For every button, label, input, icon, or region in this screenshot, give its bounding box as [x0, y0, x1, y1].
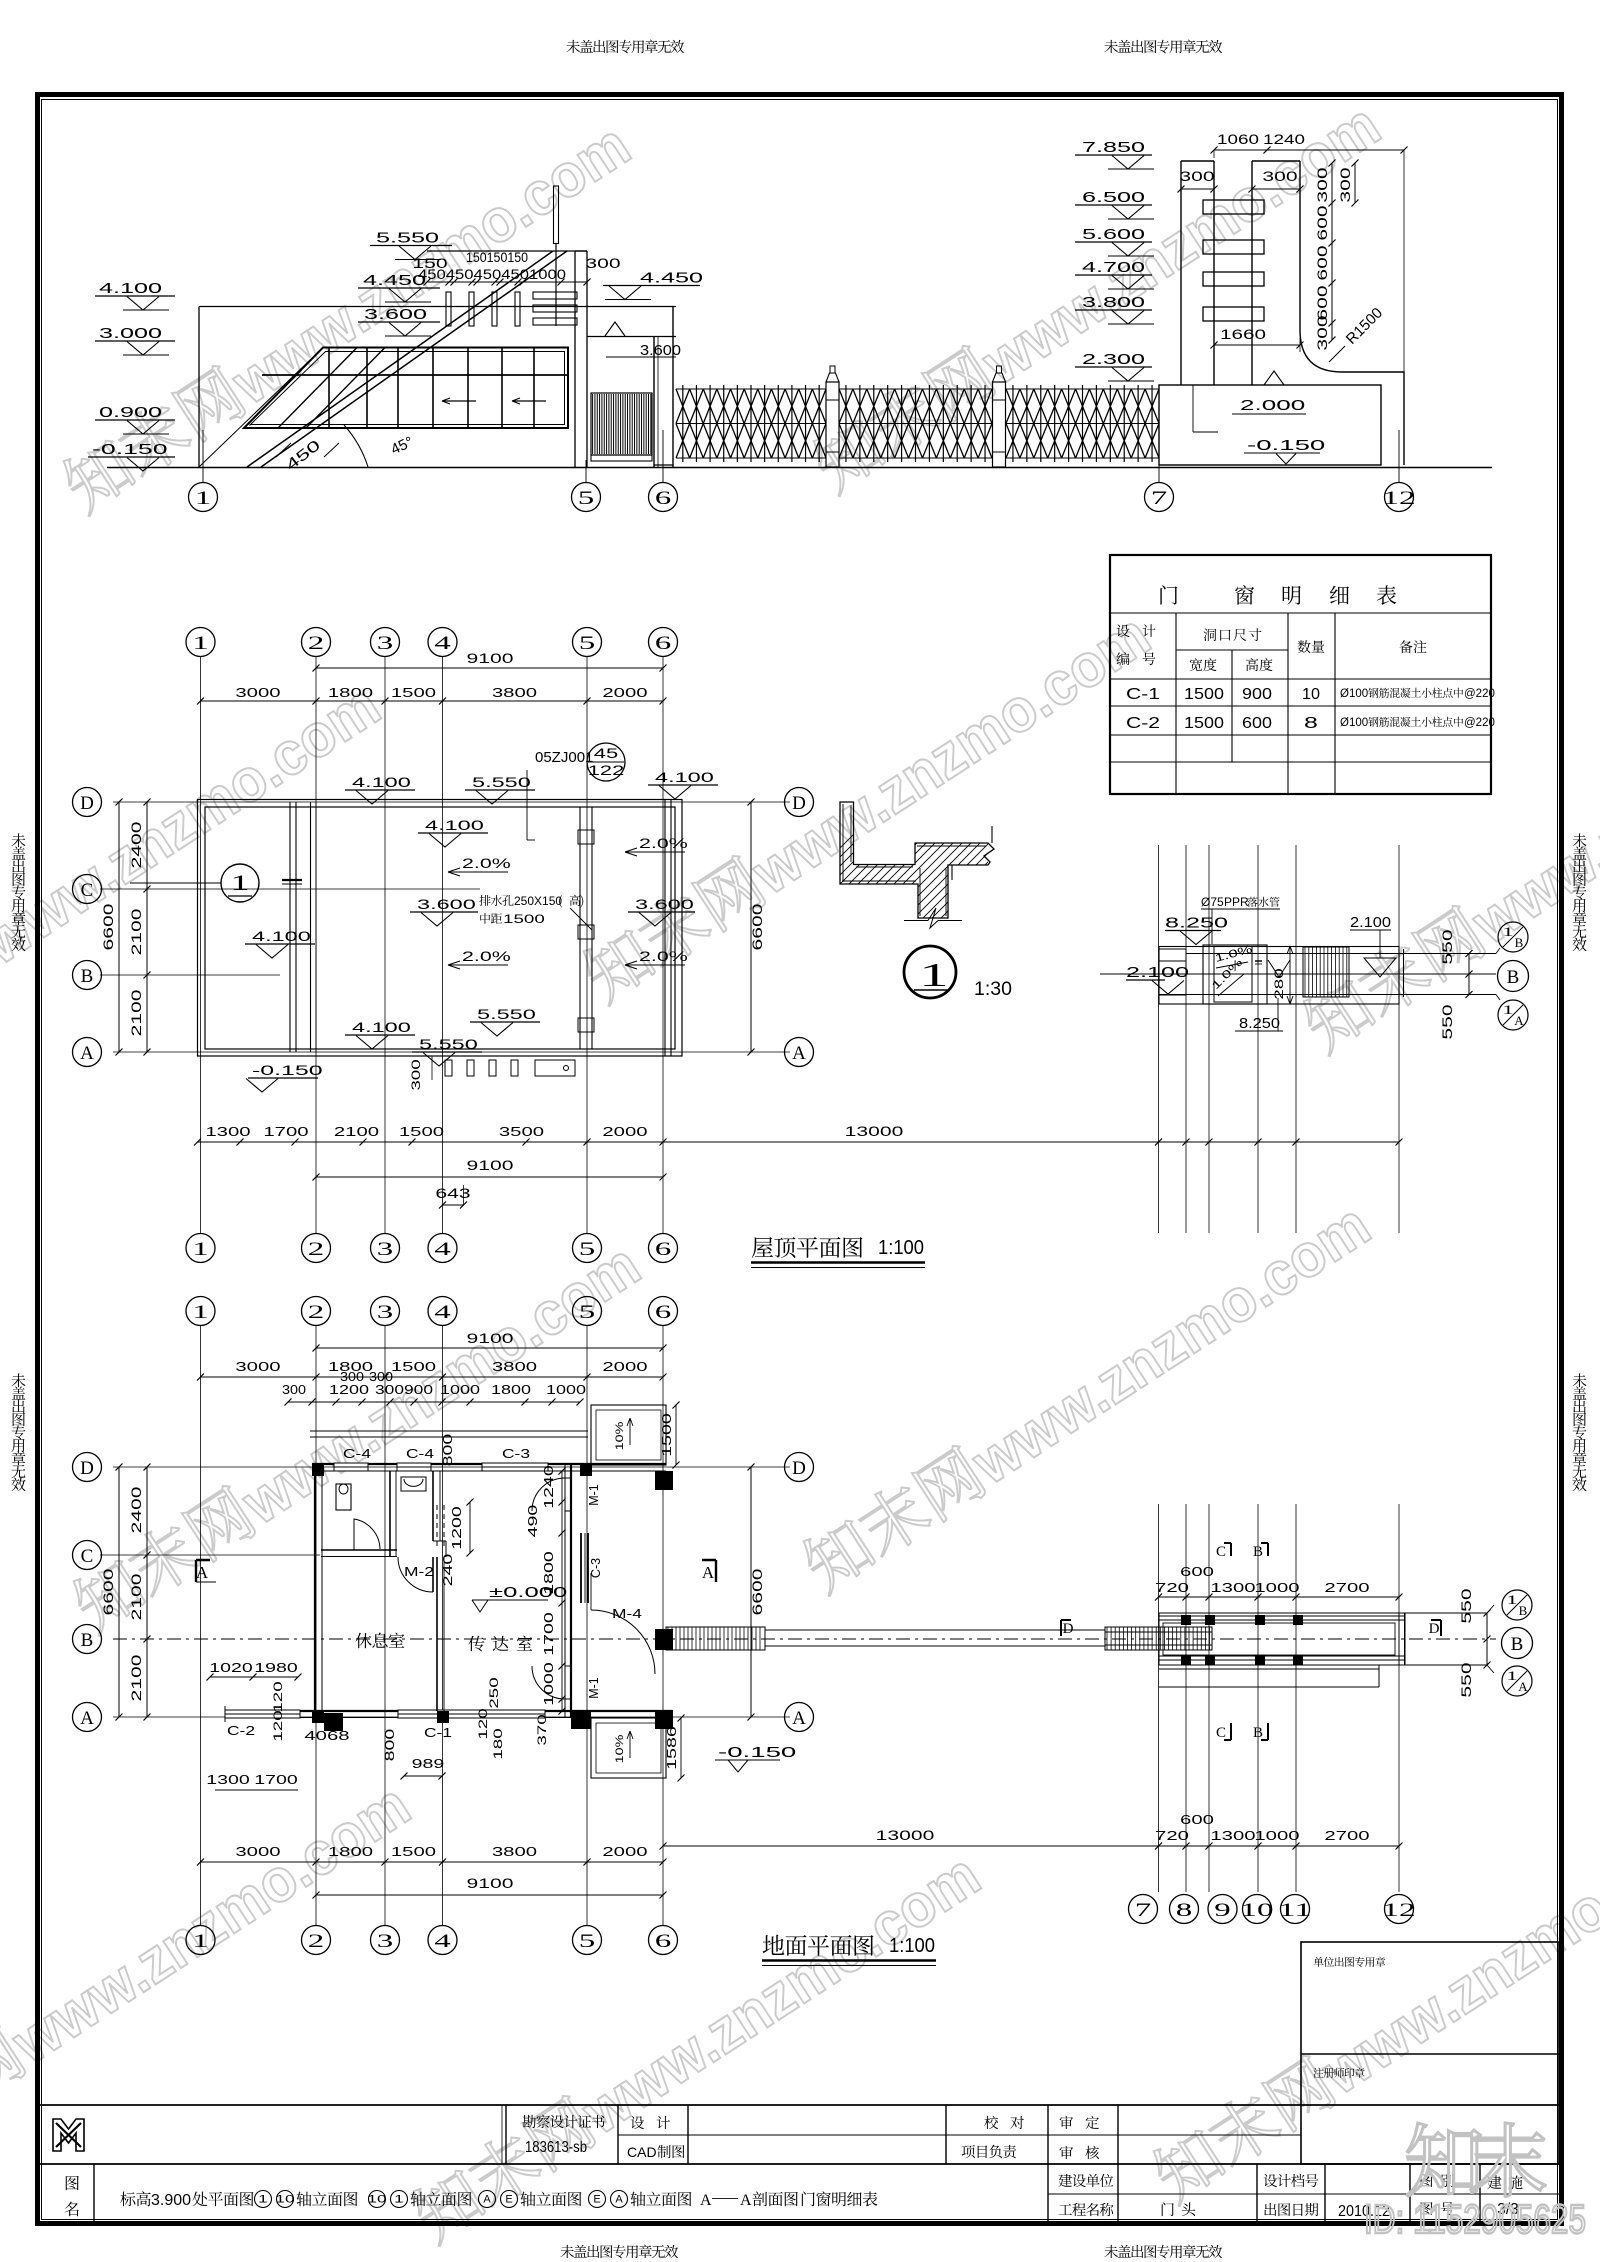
svg-text:4068: 4068: [304, 1728, 349, 1743]
svg-text:120: 120: [271, 1710, 285, 1742]
grid circle 1 (roof top): [186, 628, 215, 657]
label 审核: [1060, 2146, 1073, 2159]
table title 门窗明细表: [1160, 585, 1177, 604]
svg-text:12: 12: [1382, 1900, 1415, 1921]
grid circle 1/A: [1498, 1000, 1528, 1030]
title block verticals: [505, 2105, 507, 2164]
勘察设计证书 183613-sb: [522, 2115, 535, 2128]
section mark A right: [702, 1560, 716, 1582]
svg-text:A: A: [792, 1708, 806, 1729]
svg-text:300: 300: [369, 1370, 393, 1384]
svg-text:1000: 1000: [1254, 1828, 1299, 1843]
svg-text:2100: 2100: [334, 1124, 379, 1139]
grid circle 4 (ground top): [428, 1297, 457, 1326]
svg-text:3800: 3800: [492, 685, 537, 700]
grid circle A (ground right): [785, 1703, 814, 1732]
grid circle 5 (ground bottom): [573, 1926, 602, 1955]
svg-text:550: 550: [1459, 1662, 1474, 1697]
svg-text:A: A: [700, 2192, 712, 2209]
pylon base block: [1159, 385, 1381, 465]
window C-4 #1 lines: [334, 1463, 368, 1471]
svg-text:1500: 1500: [1184, 686, 1224, 703]
sliding gate leaf (vertical bars): [591, 393, 652, 455]
svg-text:9100: 9100: [467, 1876, 514, 1891]
toilet fixture: [336, 1484, 351, 1510]
svg-text:2100: 2100: [129, 909, 144, 956]
svg-text:5: 5: [579, 1931, 596, 1952]
svg-text:4.100: 4.100: [252, 928, 311, 944]
trellis bars (3 horizontal): [533, 292, 577, 299]
svg-text:1500: 1500: [1184, 715, 1224, 732]
svg-text:3000: 3000: [235, 1844, 280, 1859]
svg-text:4.700: 4.700: [1082, 259, 1145, 276]
svg-text:@220: @220: [1464, 688, 1495, 700]
svg-text:1586: 1586: [665, 1726, 679, 1770]
bath inner wall right: [432, 1471, 434, 1541]
svg-text:300: 300: [1262, 169, 1297, 184]
grid circle 6 (ground bottom): [649, 1926, 678, 1955]
svg-text:2700: 2700: [1324, 1828, 1369, 1843]
svg-text:3500: 3500: [499, 1124, 544, 1139]
svg-text:2.100: 2.100: [1350, 914, 1391, 931]
label 工程名称: [1059, 2204, 1072, 2215]
table 门窗明细表 outer box: [1110, 555, 1491, 794]
grid circle 7 (elev): [1145, 483, 1174, 512]
axis line 4 (ground plan): [442, 1326, 444, 1926]
axis line 2 (ground plan): [315, 1326, 317, 1926]
svg-text:A: A: [483, 2194, 491, 2206]
svg-text:6.500: 6.500: [1082, 189, 1145, 206]
svg-text:180: 180: [491, 1728, 505, 1760]
svg-text:1: 1: [1506, 1668, 1517, 1683]
value 门头: [1162, 2202, 1174, 2216]
svg-text:B: B: [1253, 1544, 1263, 1560]
svg-text:1500: 1500: [660, 1413, 674, 1457]
grid circle 10 (ground fragment bottom): [1243, 1895, 1272, 1924]
roof dim 643: [443, 1204, 464, 1206]
svg-text:6600: 6600: [101, 1569, 116, 1616]
grid circle 7 (ground fragment bottom): [1129, 1895, 1158, 1924]
level mark 4.100 (left col): [95, 295, 175, 297]
svg-text:1500: 1500: [391, 1359, 436, 1374]
window transom line: [262, 374, 568, 376]
watermark tile 知末网www.znzmo.com: [576, 600, 1161, 1013]
fence post: [993, 382, 1006, 467]
axis line 7 (elev): [1158, 430, 1160, 483]
top wall line: [1159, 1615, 1405, 1617]
svg-text:2.0%: 2.0%: [639, 948, 688, 964]
R1500 curve: [1300, 330, 1404, 465]
svg-text:300: 300: [1315, 315, 1330, 350]
svg-text:B: B: [1511, 1634, 1524, 1655]
svg-text:300: 300: [1315, 167, 1330, 202]
svg-text:11: 11: [1278, 1900, 1311, 1921]
grid circle 11 (ground fragment bottom): [1281, 1895, 1310, 1924]
svg-text:5: 5: [579, 1302, 596, 1323]
ground bottom 9100: [316, 1894, 663, 1896]
svg-text:3.900: 3.900: [151, 2192, 191, 2209]
svg-text:5.550: 5.550: [477, 1006, 536, 1022]
svg-text:1: 1: [258, 2194, 268, 2206]
svg-text:9: 9: [1214, 1900, 1231, 1921]
svg-text:150150150: 150150150: [466, 250, 528, 265]
svg-text:2: 2: [308, 633, 325, 654]
roof level 4.100 (upper mid): [418, 832, 488, 834]
dim 1200 vertical: [469, 1502, 471, 1553]
svg-text:989: 989: [412, 1757, 445, 1771]
svg-text:-0.150: -0.150: [252, 1062, 323, 1078]
notice text left edge lower (vertical): [11, 1373, 25, 1387]
notice text top-left: 未盖出图专用章无效: [566, 40, 580, 53]
level 2.100 left: [1126, 979, 1165, 981]
canopy rafter ends below roof: [445, 1060, 452, 1076]
svg-text:5: 5: [579, 1239, 596, 1260]
grid circle 5 (elev): [572, 483, 601, 512]
window C-4 #2: [397, 1463, 431, 1471]
svg-text:2100: 2100: [129, 990, 144, 1037]
svg-text:B: B: [1519, 1603, 1528, 1618]
dim 1660: [1214, 344, 1300, 346]
grid circle 12 (elev): [1385, 483, 1414, 512]
tick detail at wall: [282, 879, 302, 881]
lower-left dim row 1300/1700: [215, 1789, 298, 1791]
svg-text:7: 7: [1135, 1900, 1152, 1921]
svg-text:1800: 1800: [328, 685, 373, 700]
svg-text:4504504504501000: 4504504504501000: [418, 267, 566, 282]
1586 dim right: [680, 1718, 682, 1778]
svg-text:9100: 9100: [467, 1158, 514, 1173]
band mid box: [1203, 945, 1267, 1004]
svg-text:1300: 1300: [1210, 1828, 1255, 1843]
svg-text:300: 300: [1338, 167, 1353, 202]
detail callout circle 1: [904, 946, 956, 998]
pylon right column: [1251, 161, 1253, 385]
grid circle 3 (roof bottom): [371, 1234, 400, 1263]
svg-text:CAD: CAD: [627, 2144, 657, 2160]
roof top dim row 3000/1800/1500/3800/2000: [201, 700, 664, 702]
svg-text:5.550: 5.550: [472, 774, 531, 790]
grid circle 3 (roof top): [371, 628, 400, 657]
svg-text:C: C: [81, 1546, 94, 1567]
notice text top-right: 未盖出图专用章无效: [1104, 40, 1118, 53]
svg-text:12: 12: [1382, 488, 1415, 509]
A wall (bottom): [300, 1710, 673, 1712]
axis-5 pillar elevation: [574, 251, 576, 307]
svg-text:4: 4: [434, 633, 451, 654]
svg-text:10: 10: [275, 2194, 294, 2206]
svg-text:3000: 3000: [235, 1359, 280, 1374]
svg-text:1:100: 1:100: [878, 1237, 924, 1259]
watermark big 知末 bottom right: [1407, 2123, 1480, 2196]
gate structure plan outer: [1159, 1613, 1405, 1665]
ground axis B line (dashed): [113, 1638, 1496, 1640]
svg-text:183613-sb: 183613-sb: [525, 2139, 587, 2156]
svg-text:-0.150: -0.150: [1247, 437, 1325, 454]
svg-text:720: 720: [1155, 1580, 1189, 1595]
watermark tile 知末网www.znzmo.com: [1296, 650, 1600, 1063]
canopy strut 45deg: [247, 251, 553, 467]
svg-text:1240: 1240: [542, 1465, 556, 1509]
svg-text:M-1: M-1: [587, 1484, 601, 1506]
svg-text:C-2: C-2: [227, 1723, 255, 1738]
svg-text:A: A: [792, 1043, 806, 1064]
svg-text:2000: 2000: [602, 1359, 647, 1374]
svg-text:2: 2: [308, 1302, 325, 1323]
label 出图日期: [1264, 2203, 1276, 2216]
grid circle 4 (ground bottom): [428, 1926, 457, 1955]
detail callout circle 1 on roof: [221, 864, 259, 902]
ground top dim row detailed: [288, 1401, 580, 1403]
svg-text:1500: 1500: [503, 912, 545, 926]
door M-1 top: [565, 1477, 571, 1479]
svg-text:1: 1: [192, 1239, 209, 1260]
window band W (sloped + horizontal), elevation: [244, 348, 568, 429]
grid circle 1/B (ground): [1502, 1590, 1532, 1620]
title block mid line: [40, 2163, 1559, 2165]
svg-text:B: B: [81, 1630, 94, 1651]
company logo: [53, 2119, 84, 2151]
svg-text:C-1: C-1: [1126, 686, 1160, 703]
svg-text:1: 1: [1502, 1002, 1513, 1017]
svg-text:643: 643: [435, 1186, 470, 1201]
svg-text:8: 8: [1304, 715, 1318, 732]
axis lines 7-12 (ground fragment): [1158, 1504, 1160, 1892]
svg-text:4: 4: [434, 1302, 451, 1323]
axis line 1 (roof plan): [200, 657, 202, 1234]
roof fragment band outline: [1159, 947, 1399, 1005]
45deg arc + label: [344, 425, 368, 467]
svg-text:280: 280: [1272, 968, 1286, 1000]
beam over gate (axis5-6): [587, 306, 676, 308]
svg-text:1300: 1300: [1210, 1580, 1255, 1595]
label 项目负责: [962, 2145, 975, 2158]
roof right total 6600: [750, 802, 752, 1052]
svg-text:600: 600: [1180, 1812, 1214, 1827]
watermark tile 知末网www.znzmo.com: [66, 1230, 651, 1643]
svg-text:120: 120: [271, 1681, 285, 1713]
svg-text:120: 120: [476, 1708, 490, 1740]
base level 2.000: [1264, 371, 1284, 385]
svg-text:D: D: [80, 793, 94, 814]
band right end cap: [1398, 949, 1400, 997]
svg-text:9100: 9100: [467, 1331, 514, 1346]
axis line 12 (elev): [1398, 430, 1400, 483]
watermark tile 知末网www.znzmo.com: [1146, 1800, 1600, 2213]
section C mark top: [1224, 1543, 1231, 1556]
section mark A left: [196, 1560, 210, 1582]
svg-text:4.100: 4.100: [655, 769, 714, 785]
upper dim row 720/600/1300/1000/2700: [1159, 1596, 1400, 1598]
svg-text:4: 4: [434, 1931, 451, 1952]
label 图名: [66, 2176, 79, 2190]
svg-text:B: B: [1515, 935, 1524, 950]
pylon crossbars: [1203, 200, 1264, 214]
svg-text:2100: 2100: [129, 1574, 144, 1621]
svg-text:600: 600: [1315, 245, 1330, 280]
gate pillar right (axis 6): [653, 337, 655, 468]
ground bottom dim row: [201, 1861, 664, 1863]
svg-text:A: A: [196, 1563, 209, 1582]
svg-text:1000: 1000: [542, 1662, 556, 1706]
sheet content line: [120, 2192, 135, 2207]
svg-text:C-2: C-2: [1126, 715, 1160, 732]
roof top dim 9100: [316, 667, 663, 669]
header 备注: [1399, 640, 1412, 653]
svg-text:B: B: [1253, 1725, 1263, 1741]
level 8.250 upper: [1165, 930, 1221, 932]
svg-text:1:100: 1:100: [889, 1935, 935, 1957]
fence hatch 2 (retracted gate): [1105, 1627, 1212, 1650]
svg-text:1060: 1060: [1217, 132, 1259, 147]
trellis slats (vertical): [446, 292, 451, 326]
svg-text:7: 7: [1151, 488, 1168, 509]
roof axis B line: [100, 974, 280, 976]
svg-text:550: 550: [1459, 1588, 1474, 1623]
axis line 5 (roof plan): [586, 657, 588, 1234]
svg-text:6600: 6600: [101, 904, 116, 951]
svg-text:10: 10: [1240, 1900, 1273, 1921]
gatehouse right wall: [574, 307, 576, 468]
section D mark left: [1061, 1620, 1071, 1636]
roof axis A line: [113, 1051, 790, 1053]
svg-text:B: B: [81, 966, 94, 987]
svg-text:0.900: 0.900: [99, 404, 162, 421]
grid circle D (ground right): [785, 1453, 814, 1482]
roof level -0.150 bottom: [248, 1077, 318, 1079]
svg-text:3000: 3000: [235, 685, 280, 700]
axis line 6 (ground plan): [662, 1326, 664, 1926]
svg-text:B: B: [1507, 967, 1520, 988]
lower-left dims 1020/1980/120 etc: [210, 1676, 298, 1678]
watermark tile 知末网www.znzmo.com: [56, 110, 641, 523]
grid circle 2 (roof bottom): [302, 1234, 331, 1263]
svg-text:6600: 6600: [750, 1569, 765, 1616]
svg-text:6: 6: [655, 1239, 672, 1260]
trellis dim line with ticks: [427, 281, 587, 283]
svg-text:3.600: 3.600: [364, 306, 427, 323]
svg-text:1800: 1800: [491, 1383, 531, 1397]
svg-text:C-3: C-3: [502, 1446, 530, 1461]
header 设计/编号: [1117, 624, 1130, 637]
550 dims right (ground): [1486, 1613, 1488, 1665]
svg-text:1: 1: [192, 1931, 209, 1952]
section D mark right: [1431, 1620, 1441, 1636]
table horizontal lines: [1110, 612, 1491, 614]
svg-text:6: 6: [655, 633, 672, 654]
svg-text:1800: 1800: [328, 1844, 373, 1859]
svg-text:3.000: 3.000: [99, 325, 162, 342]
grid circle C (ground left): [73, 1541, 102, 1570]
ground plan title 地面平面图 1:100: [763, 1935, 784, 1955]
roof axis D line: [113, 801, 790, 803]
grid circle B (ground fragment): [1502, 1628, 1533, 1659]
grid circle 3 (ground bottom): [371, 1926, 400, 1955]
svg-text:13000: 13000: [876, 1828, 935, 1843]
columns (black): [312, 1464, 324, 1476]
axis line 1 (ground plan): [200, 1326, 202, 1926]
roof level 3.600 mid: [410, 911, 478, 913]
svg-text:5: 5: [579, 633, 596, 654]
svg-text:1980: 1980: [254, 1661, 298, 1675]
svg-text:Ø75: Ø75: [1201, 895, 1224, 909]
svg-text:C-4: C-4: [406, 1446, 434, 1461]
plan columns (black) on walls: [1181, 1615, 1191, 1625]
notice text bottom-right: 未盖出图专用章无效: [1104, 2245, 1118, 2258]
roof level 4.100 (top right): [648, 784, 718, 786]
svg-text:6: 6: [655, 1931, 672, 1952]
section B mark top: [1261, 1543, 1268, 1556]
bottom dim row 13000 / 720/600/1300/1000/2700: [663, 1845, 1399, 1847]
svg-text:250X150: 250X150: [514, 894, 562, 908]
grid circle D (ground left): [73, 1453, 102, 1482]
grid circle 6 (elev): [649, 483, 678, 512]
grid circle 5 (roof bottom): [573, 1234, 602, 1263]
svg-text:4.100: 4.100: [352, 774, 411, 790]
svg-text:Ø100: Ø100: [1340, 688, 1368, 700]
svg-text:4.100: 4.100: [352, 1019, 411, 1035]
grid circle 5 (roof top): [573, 628, 602, 657]
room label 传达室: [468, 1636, 484, 1652]
svg-text:8: 8: [1176, 1900, 1193, 1921]
svg-text:1: 1: [394, 2194, 404, 2206]
svg-text:1200: 1200: [450, 1506, 464, 1550]
svg-text:D: D: [1429, 1621, 1440, 1637]
svg-text:D: D: [792, 793, 806, 814]
grid circle 1 (elev): [189, 483, 218, 512]
fence post: [826, 382, 839, 467]
svg-text:300: 300: [340, 1370, 364, 1384]
band left cell: [1159, 949, 1186, 995]
svg-text:1020: 1020: [209, 1661, 253, 1675]
level mark -0.150: [88, 456, 175, 458]
svg-text:1000: 1000: [440, 1383, 480, 1397]
extension lines to circles (1/B, B, 1/A): [1186, 953, 1496, 955]
grid circle 1 (roof bottom): [186, 1234, 215, 1263]
axis line 6 (roof plan): [662, 657, 664, 1234]
svg-text:2400: 2400: [129, 1487, 144, 1534]
axis line 4 (roof plan): [442, 657, 444, 1234]
svg-text:1: 1: [195, 488, 212, 509]
svg-text:10: 10: [1302, 686, 1320, 703]
axis line 3 (roof plan): [384, 657, 386, 1234]
grid circle D (roof right): [785, 788, 814, 817]
section C mark bottom: [1224, 1723, 1231, 1740]
dashed opening above: [436, 1505, 438, 1550]
ground axis D line: [113, 1466, 790, 1468]
level marks right elevation 7.850..2.300: [1075, 154, 1152, 156]
svg-text:1: 1: [1502, 924, 1513, 939]
svg-text:1500: 1500: [399, 1124, 444, 1139]
grid circle 9 (ground fragment bottom): [1208, 1895, 1237, 1924]
svg-text:1500: 1500: [391, 1844, 436, 1859]
svg-text:2.300: 2.300: [1082, 351, 1145, 368]
grid circle 3 (ground top): [371, 1297, 400, 1326]
grid circle C (roof left): [73, 875, 102, 904]
13000 dim (roof, axes 6-12): [663, 1141, 1399, 1143]
roof plan title 屋顶平面图 1:100: [752, 1237, 773, 1258]
grid circle 5 (ground top): [573, 1297, 602, 1326]
svg-text:3: 3: [377, 1239, 394, 1260]
label 审定: [1060, 2116, 1073, 2129]
svg-text:PPR: PPR: [1224, 895, 1249, 909]
svg-text:6600: 6600: [750, 904, 765, 951]
1500 dim right: [675, 1405, 677, 1465]
svg-text:600: 600: [1315, 205, 1330, 240]
svg-text:1700: 1700: [263, 1124, 308, 1139]
grid circle B (roof left): [73, 961, 102, 990]
ground line of elevations: [107, 467, 1492, 469]
interior wall bath left: [389, 1471, 391, 1557]
